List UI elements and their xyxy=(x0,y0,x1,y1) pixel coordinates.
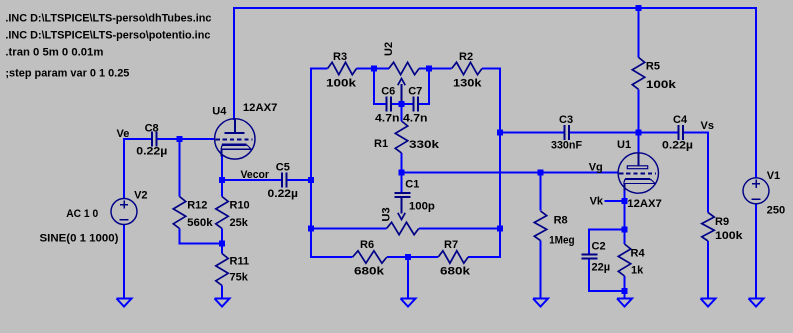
svg-text:1Meg: 1Meg xyxy=(549,235,575,247)
wire ground stub R6/R7 xyxy=(407,257,409,299)
wire node A drop to C6 xyxy=(374,69,386,105)
wire C4 left lead xyxy=(639,132,679,134)
wire C2 top branch xyxy=(589,230,625,255)
svg-text:.INC D:\LTSPICE\LTS-perso\dhTu: .INC D:\LTSPICE\LTS-perso\dhTubes.inc xyxy=(5,13,211,25)
svg-text:4.7n: 4.7n xyxy=(375,112,400,124)
svg-text:V2: V2 xyxy=(134,190,147,202)
svg-text:R2: R2 xyxy=(459,51,473,63)
svg-text:4.7n: 4.7n xyxy=(403,112,428,124)
svg-text:R4: R4 xyxy=(631,248,646,260)
triode U4 xyxy=(215,119,255,159)
resistor R8 xyxy=(534,211,546,241)
svg-text:U4: U4 xyxy=(212,106,227,118)
wire R4 bottom lead xyxy=(624,276,626,291)
svg-text:0.22µ: 0.22µ xyxy=(136,146,167,158)
svg-text:100k: 100k xyxy=(326,77,357,89)
wire Vg net to U1 grid xyxy=(402,172,619,174)
capacitor C8 xyxy=(151,132,153,147)
wire B+ rail with U4 plate riser and V1 drop xyxy=(234,8,756,178)
wire R4/C2 ground stub xyxy=(624,291,626,299)
svg-text:R9: R9 xyxy=(715,216,729,228)
svg-text:R6: R6 xyxy=(360,239,374,251)
node A R3/U2/C6 xyxy=(371,66,377,72)
svg-text:12AX7: 12AX7 xyxy=(627,198,662,210)
svg-text:V1: V1 xyxy=(767,170,780,182)
capacitor C6 xyxy=(386,97,388,112)
wire R8 to ground xyxy=(540,241,542,299)
wire R6 to R7 node xyxy=(387,256,438,258)
svg-text:U1: U1 xyxy=(617,139,631,151)
node R12/R10/R11 xyxy=(219,241,225,247)
svg-text:AC 1 0: AC 1 0 xyxy=(66,208,98,220)
wire C3 row right xyxy=(570,132,639,134)
svg-text:C7: C7 xyxy=(408,86,422,98)
svg-text:U2: U2 xyxy=(383,42,395,56)
node C6/C7 wiper xyxy=(399,101,405,107)
resistor R4 xyxy=(618,244,630,276)
wire R8 top lead xyxy=(540,173,542,211)
wire R2 left lead xyxy=(429,68,452,70)
capacitor C3 xyxy=(564,125,566,140)
wire R5 top lead xyxy=(638,8,640,57)
svg-text:0.22µ: 0.22µ xyxy=(268,188,299,200)
svg-text:Ve: Ve xyxy=(117,128,130,140)
wire C7 up to node B xyxy=(419,69,429,105)
wire centre node to C7 xyxy=(402,103,414,105)
svg-text:12AX7: 12AX7 xyxy=(243,102,278,114)
wire R5 bottom lead xyxy=(638,89,640,132)
wire V2 to ground xyxy=(123,225,125,299)
capacitor C4 xyxy=(678,125,680,140)
svg-text:75k: 75k xyxy=(230,272,249,284)
wire Vecor net to C5 xyxy=(222,179,282,181)
capacitor C5 xyxy=(281,173,283,188)
ground V2 xyxy=(117,299,132,307)
svg-text:0.22µ: 0.22µ xyxy=(662,139,693,151)
wire R9 to ground xyxy=(707,241,709,299)
svg-text:1k: 1k xyxy=(631,264,644,276)
node cathode/C2/R4 xyxy=(622,227,628,233)
ground R8 xyxy=(533,299,548,307)
svg-text:560k: 560k xyxy=(187,217,213,229)
node Vg/R8 xyxy=(538,170,544,176)
wire U3 right lead xyxy=(419,228,500,230)
node U3 left xyxy=(308,226,314,232)
node C5/left-bus xyxy=(308,177,314,183)
resistor R7 xyxy=(438,251,468,263)
svg-text:U3: U3 xyxy=(381,207,393,221)
wire R4 top lead xyxy=(624,230,626,245)
resistor R1 xyxy=(395,121,407,153)
svg-text:R8: R8 xyxy=(554,215,568,227)
capacitor C1 xyxy=(394,192,410,194)
potentiometer U3 xyxy=(387,222,419,234)
svg-text:680k: 680k xyxy=(354,265,385,277)
ground V1 xyxy=(749,299,764,307)
wire Vk label stub xyxy=(605,200,625,202)
wire U3 left lead xyxy=(311,228,387,230)
svg-text:C3: C3 xyxy=(559,114,573,126)
node rail/R5 xyxy=(636,5,642,11)
wire U2 right lead xyxy=(419,68,429,70)
voltage source V2 xyxy=(111,199,137,225)
wire V1 to ground xyxy=(755,204,757,299)
svg-text:250: 250 xyxy=(767,205,786,217)
wire left bus / R3 feed / R6 feed xyxy=(311,69,353,258)
svg-text:C5: C5 xyxy=(276,162,290,174)
svg-text:R10: R10 xyxy=(230,200,250,212)
wire C2 bottom branch xyxy=(589,259,625,291)
svg-text:Vk: Vk xyxy=(590,196,604,208)
node Vecor xyxy=(219,177,225,183)
resistor R3 xyxy=(328,62,357,74)
svg-text:25k: 25k xyxy=(230,217,249,229)
svg-text:C8: C8 xyxy=(145,123,159,135)
svg-text:R11: R11 xyxy=(230,256,250,268)
svg-text:Vecor: Vecor xyxy=(241,169,270,181)
svg-text:680k: 680k xyxy=(440,265,471,277)
node R1/C1/Vg xyxy=(399,170,405,176)
svg-text:Vg: Vg xyxy=(589,162,603,174)
wire node Ve-R12 drop xyxy=(179,139,181,197)
svg-text:Vs: Vs xyxy=(701,120,714,132)
svg-text:100p: 100p xyxy=(409,201,435,213)
ground R6/R7 xyxy=(401,299,416,307)
wire R12 bottom to R10/R11 node xyxy=(180,229,223,244)
wire U1 plate riser xyxy=(638,133,640,154)
ground R11 xyxy=(215,299,230,307)
wire U1 cathode column xyxy=(624,190,626,230)
wire C8 to U4 grid xyxy=(157,138,215,140)
svg-text:C4: C4 xyxy=(673,114,688,126)
wire C6 to centre node xyxy=(392,103,402,105)
svg-text:130k: 130k xyxy=(453,77,483,89)
ground R4/C2 xyxy=(617,299,632,307)
wire Ve input to C8 and down to V2 xyxy=(124,139,151,199)
ground R9 xyxy=(701,299,716,307)
svg-text:R7: R7 xyxy=(444,239,458,251)
resistor R11 xyxy=(216,254,228,286)
wire U2 left lead xyxy=(374,68,389,70)
svg-text:C2: C2 xyxy=(592,240,606,252)
wire C4 right / Vs corner / R9 top xyxy=(684,133,708,213)
resistor R5 xyxy=(632,57,644,89)
svg-text:330nF: 330nF xyxy=(551,139,582,151)
svg-text:SINE(0 1 1000): SINE(0 1 1000) xyxy=(40,233,119,245)
capacitor C7 xyxy=(413,97,415,112)
triode U1 xyxy=(618,153,658,193)
wire C3 row left xyxy=(500,132,564,134)
wire R1 bottom lead xyxy=(401,153,403,173)
node U3/R7 right xyxy=(497,226,503,232)
svg-text:.INC D:\LTSPICE\LTS-perso\pote: .INC D:\LTSPICE\LTS-perso\potentio.inc xyxy=(5,29,210,41)
svg-text:22µ: 22µ xyxy=(592,262,611,274)
wire R1 top lead xyxy=(401,104,403,121)
svg-text:R5: R5 xyxy=(646,60,660,72)
svg-text:.tran 0 5m 0 0.01m: .tran 0 5m 0 0.01m xyxy=(5,47,103,59)
node R6/R7 ground xyxy=(405,254,411,260)
svg-text:R12: R12 xyxy=(187,200,207,212)
node B U2/R2/C7 xyxy=(426,66,432,72)
wire R10-R11 link xyxy=(221,229,223,254)
svg-text:100k: 100k xyxy=(715,230,743,242)
resistor R12 xyxy=(173,197,185,229)
potentiometer U2 xyxy=(389,62,419,74)
svg-text:100k: 100k xyxy=(646,79,677,91)
node Vk xyxy=(622,198,628,204)
voltage source V1 xyxy=(743,178,769,204)
svg-text:R3: R3 xyxy=(333,51,347,63)
wire R3 right lead xyxy=(357,68,375,70)
node R5/C3/C4 plate xyxy=(636,130,642,136)
node C2/R4 bottom xyxy=(622,288,628,294)
resistor R6 xyxy=(353,251,387,263)
wire C5 to left bus xyxy=(287,179,311,181)
node R2/C3 xyxy=(497,130,503,136)
wire R7 right / right bus x=500 / R2 right xyxy=(468,69,500,258)
resistor R9 xyxy=(702,213,714,242)
svg-text:C6: C6 xyxy=(381,86,395,98)
svg-text:;step param var 0 1 0.25: ;step param var 0 1 0.25 xyxy=(5,68,129,80)
wire C1 top lead xyxy=(401,173,403,193)
node Ve/C8/R12 xyxy=(177,136,183,142)
svg-text:C1: C1 xyxy=(405,179,419,191)
wire U4 cathode column to R10 xyxy=(221,155,223,197)
resistor R10 xyxy=(216,197,228,229)
wire R11 to ground xyxy=(221,286,223,299)
svg-text:R1: R1 xyxy=(374,138,388,150)
svg-text:330k: 330k xyxy=(409,139,440,151)
capacitor C2 xyxy=(581,254,597,256)
resistor R2 xyxy=(452,62,482,74)
